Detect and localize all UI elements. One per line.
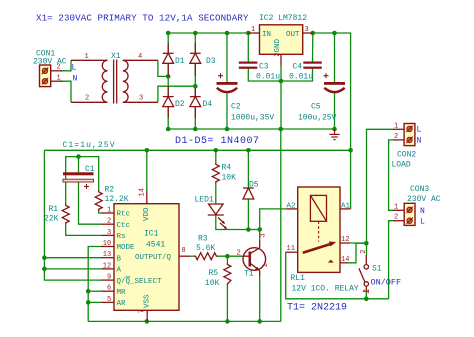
svg-text:7: 7 — [139, 309, 147, 313]
wire to pin 5 AR — [88, 301, 101, 303]
relay pin A2 stub — [286, 208, 298, 210]
wire ground rail — [168, 128, 334, 130]
svg-text:X1= 230VAC PRIMARY TO 12V,1A S: X1= 230VAC PRIMARY TO 12V,1A SECONDARY — [36, 13, 249, 24]
capacitor C4 — [303, 62, 322, 69]
wire C4 top — [312, 33, 314, 62]
junction T1 base node — [225, 254, 230, 259]
junction C1 oscillator node — [76, 154, 81, 159]
wire VDD pin14 to +12V rail — [146, 150, 148, 190]
svg-text:230V AC: 230V AC — [407, 195, 441, 204]
wire top rail D1-D3-C2-C3 to IC2 IN — [168, 32, 248, 34]
svg-text:8: 8 — [182, 247, 186, 255]
junction C2 top rail — [225, 31, 230, 36]
wire D2 bottom to ground rail — [167, 107, 169, 129]
junction D2 ground rail — [166, 127, 171, 132]
junction T1 collector node — [257, 227, 262, 232]
svg-text:L: L — [72, 64, 77, 73]
junction pin13 B — [42, 255, 47, 260]
IC1 pin14 stub — [146, 191, 148, 204]
svg-text:D1: D1 — [175, 57, 185, 66]
wire relay pin11 to bottom rail — [286, 252, 389, 299]
wire VSS bottom rail — [88, 320, 281, 322]
junction +12V rail corner — [348, 148, 353, 153]
svg-text:12: 12 — [103, 262, 111, 270]
svg-text:9: 9 — [107, 274, 111, 282]
regulator IC2 LM7812 — [248, 25, 312, 65]
svg-text:Rs: Rs — [117, 233, 126, 241]
wire CON3 pin2 down to bottom rail — [389, 221, 393, 299]
svg-text:C5: C5 — [311, 103, 321, 112]
wire oscillator node line — [66, 157, 99, 204]
svg-text:AR: AR — [117, 300, 127, 308]
junction pin6 MR — [86, 289, 91, 294]
wire LED1 cathode to node — [216, 216, 260, 230]
svg-text:3: 3 — [260, 233, 268, 237]
svg-text:MODE: MODE — [117, 244, 136, 252]
wire R5 bottom to VSS rail — [226, 286, 228, 322]
IC1 left pin stubs — [101, 213, 114, 302]
junction relay 12 14 S1 — [364, 241, 369, 246]
wire CON2 pin2 to CON3 pin1 — [389, 140, 393, 210]
diode D2 — [163, 86, 174, 118]
wire CON1 pin2 to transformer pin1 — [60, 60, 71, 71]
svg-text:C4: C4 — [293, 63, 303, 72]
svg-text:T1= 2N2219: T1= 2N2219 — [287, 303, 347, 314]
svg-text:3: 3 — [107, 229, 111, 237]
svg-text:VSS: VSS — [144, 294, 152, 308]
svg-text:230V AC: 230V AC — [33, 58, 67, 67]
svg-text:2: 2 — [394, 133, 398, 141]
wire R1 bottom to pin 3 Rs — [66, 225, 101, 236]
svg-text:2: 2 — [85, 95, 89, 103]
junction D5 LED node — [246, 227, 251, 232]
svg-text:A1: A1 — [341, 202, 351, 210]
svg-text:A: A — [117, 267, 122, 275]
junction pin12 A — [42, 267, 47, 272]
svg-text:13: 13 — [103, 251, 111, 259]
wire C1 top to node — [78, 157, 80, 173]
svg-text:4541: 4541 — [146, 241, 165, 250]
svg-text:2: 2 — [274, 53, 282, 57]
svg-text:Q/Q_SELECT: Q/Q_SELECT — [117, 278, 163, 286]
pin name Q_SELECT overline — [126, 276, 131, 278]
resistor R1 — [62, 204, 69, 225]
diode D1 — [163, 43, 174, 76]
IC1 pin7 stub — [146, 310, 148, 321]
svg-text:VDD: VDD — [143, 207, 151, 221]
relay pin 11 stub — [286, 251, 298, 253]
resistor R4 — [212, 163, 219, 184]
relay pin 12 stub — [340, 242, 350, 244]
svg-text:D5: D5 — [249, 181, 259, 190]
IC1 pin8 stub — [179, 255, 190, 257]
capacitor C1 polarized — [63, 172, 94, 189]
svg-text:2: 2 — [107, 218, 111, 226]
wire IC2 GND pin down to ground rail — [280, 65, 282, 129]
svg-text:1: 1 — [394, 203, 398, 211]
wire to pin 6 MR — [88, 290, 101, 292]
IC U1 4541 body — [114, 204, 179, 311]
svg-text:IN: IN — [262, 31, 271, 39]
connector CON2 — [393, 124, 415, 146]
wire +12V horizontal rail — [44, 149, 350, 151]
wire R4 bottom to LED1 — [215, 184, 217, 204]
svg-text:0.01u: 0.01u — [289, 73, 313, 82]
svg-text:1: 1 — [394, 122, 398, 130]
svg-text:D2: D2 — [175, 100, 185, 109]
wire R2 bottom to pin 1 Rtc — [99, 211, 101, 213]
svg-text:C3: C3 — [259, 63, 269, 72]
wire relay pin14 to S1 junction — [348, 243, 366, 263]
svg-text:X1: X1 — [111, 52, 121, 61]
ground symbol — [329, 129, 339, 140]
junction D1 top rail — [166, 31, 171, 36]
relay pin A1 stub — [340, 208, 351, 210]
svg-text:1: 1 — [251, 26, 255, 34]
junction pin7 VSS rail — [145, 319, 150, 324]
relay dashed actuator line — [318, 221, 320, 241]
junction S1 bottom rail — [364, 297, 369, 302]
svg-text:14: 14 — [138, 188, 146, 196]
svg-text:R2: R2 — [105, 186, 115, 195]
wire D1 column — [167, 33, 169, 53]
svg-text:N: N — [417, 137, 422, 146]
wire node up to relay A2 — [260, 209, 286, 230]
svg-text:1: 1 — [85, 53, 89, 61]
svg-text:B: B — [117, 255, 122, 263]
junction R4 +12V rail — [214, 148, 219, 153]
svg-text:R1: R1 — [49, 205, 59, 214]
relay pin 14 stub — [340, 262, 348, 264]
wire left VDD vertical to pins B A Q_SELECT — [44, 150, 101, 280]
wire MODE MR AR ground vertical — [88, 247, 101, 322]
svg-text:5: 5 — [107, 296, 111, 304]
svg-text:C1=1u,25V: C1=1u,25V — [63, 141, 116, 150]
wire IC2 OUT rail to corner — [313, 33, 351, 150]
svg-text:C1: C1 — [85, 165, 95, 174]
svg-text:L: L — [420, 218, 425, 227]
svg-text:D4: D4 — [203, 100, 213, 109]
wire VSS rail up to ground rail — [280, 129, 282, 321]
wire D3 column — [194, 33, 196, 53]
svg-text:12: 12 — [341, 236, 349, 244]
svg-text:1000u,35V: 1000u,35V — [231, 114, 274, 123]
wire C3 top — [247, 33, 249, 62]
svg-text:N: N — [420, 207, 425, 216]
junction C5 ground rail — [332, 127, 337, 132]
svg-text:OUT: OUT — [286, 31, 300, 39]
transformer X1 — [71, 60, 158, 104]
svg-text:11: 11 — [287, 245, 295, 253]
svg-text:CON2: CON2 — [397, 151, 416, 160]
svg-text:R3: R3 — [198, 235, 208, 244]
wire R5 top — [226, 256, 228, 263]
svg-text:1: 1 — [107, 207, 111, 215]
wire D5 anode to node — [247, 199, 249, 229]
switch S1 — [359, 255, 369, 292]
svg-text:2: 2 — [57, 64, 61, 72]
svg-text:GND: GND — [274, 38, 282, 52]
svg-text:12.2K: 12.2K — [105, 195, 129, 204]
capacitor C5 — [324, 73, 346, 92]
junction C4 IC2 OUT — [311, 31, 316, 36]
svg-text:R5: R5 — [209, 269, 219, 278]
svg-text:12V 1CO. RELAY: 12V 1CO. RELAY — [292, 285, 359, 294]
svg-text:10K: 10K — [222, 174, 237, 183]
svg-text:4: 4 — [138, 53, 142, 61]
junction D1 D2 node — [166, 74, 171, 79]
svg-text:A2: A2 — [287, 202, 296, 210]
junction R5 VSS rail — [225, 319, 230, 324]
svg-text:T1: T1 — [244, 270, 254, 279]
wire CON1 pin1 to transformer pin2 — [60, 81, 71, 102]
wire R3 to T1 base node — [218, 255, 244, 257]
wire to pin 12 A — [44, 268, 101, 270]
svg-text:3: 3 — [305, 26, 309, 34]
junction D3 top rail — [193, 31, 198, 36]
wire IC1 pin8 to R3 — [190, 255, 194, 257]
svg-text:2: 2 — [394, 214, 398, 222]
svg-text:RL1: RL1 — [291, 274, 306, 283]
wire relay pin12 to S1 junction — [350, 242, 367, 244]
capacitor C3 — [239, 62, 257, 69]
junction T1 emitter VSS rail — [257, 319, 262, 324]
svg-text:CON3: CON3 — [410, 185, 429, 194]
svg-text:D3: D3 — [206, 57, 216, 66]
svg-text:5.6K: 5.6K — [196, 244, 215, 253]
junction D4 ground rail — [193, 127, 198, 132]
svg-text:IC1: IC1 — [144, 230, 159, 239]
LED LED1 — [208, 204, 227, 229]
junction D3 D4 node — [193, 84, 198, 89]
wire D3 D4 mid column — [194, 64, 196, 97]
svg-text:10K: 10K — [205, 279, 220, 288]
svg-text:MR: MR — [117, 289, 127, 297]
diode D4 — [190, 88, 201, 118]
svg-text:Rtc: Rtc — [117, 211, 131, 219]
svg-text:1: 1 — [262, 263, 270, 267]
wire to pin 13 B — [44, 257, 101, 259]
svg-text:14: 14 — [341, 256, 349, 264]
svg-text:ON/OFF: ON/OFF — [371, 278, 402, 288]
svg-text:R4: R4 — [222, 164, 232, 173]
wire D5 top to +12V rail — [247, 150, 249, 187]
wire +12V vertical to relay A1 — [350, 150, 352, 209]
svg-text:6: 6 — [107, 285, 111, 293]
svg-text:10: 10 — [103, 240, 111, 248]
resistor R5 — [224, 263, 231, 286]
wire CON2 pin1 down to S1 top — [367, 129, 394, 255]
junction pin5 AR — [86, 300, 91, 305]
wire R4 top to +12V rail — [215, 150, 217, 162]
relay coil — [310, 195, 326, 221]
wire D4 bottom to ground rail — [194, 107, 196, 129]
svg-text:IC2 LM7812: IC2 LM7812 — [259, 14, 307, 23]
wire C2 bottom — [226, 94, 228, 130]
junction C2 ground rail — [225, 127, 230, 132]
wire C5 top — [334, 33, 336, 82]
svg-text:OUTPUT/Q: OUTPUT/Q — [135, 254, 172, 262]
svg-text:C2: C2 — [231, 103, 241, 112]
transistor T1 2N2219 — [243, 240, 266, 276]
junction D5 +12V rail — [246, 148, 251, 153]
wire D1 D2 mid column — [167, 64, 169, 97]
svg-text:S1: S1 — [372, 265, 382, 274]
relay NC contact mark — [328, 260, 334, 263]
pin number S1 1 — [363, 289, 369, 293]
svg-text:100u,25V: 100u,25V — [298, 114, 337, 123]
resistor R2 — [95, 190, 102, 211]
svg-text:LOAD: LOAD — [392, 161, 411, 170]
wire C2 top — [226, 33, 228, 82]
svg-text:3: 3 — [139, 95, 143, 103]
junction C3 IC2 IN — [246, 31, 251, 36]
wire C1 bottom to pin 2 Ctc — [79, 182, 101, 224]
svg-text:LED1: LED1 — [195, 196, 214, 205]
wire C5 bottom — [334, 94, 336, 130]
relay contact arm — [303, 242, 336, 253]
wire T1 collector — [259, 230, 261, 241]
svg-text:N: N — [73, 75, 78, 84]
connector CON3 — [393, 203, 415, 225]
svg-text:22K: 22K — [44, 215, 59, 224]
diode D3 — [190, 43, 201, 76]
capacitor C2 — [217, 73, 238, 92]
junction C5 OUT rail — [332, 31, 337, 36]
svg-text:L: L — [417, 126, 422, 135]
relay RL1 body — [298, 187, 340, 272]
resistor R3 — [194, 253, 218, 260]
junction GND pin ground rail — [279, 127, 284, 132]
svg-text:2: 2 — [237, 250, 241, 258]
svg-text:2: 2 — [360, 250, 368, 254]
svg-text:D1-D5= 1N4007: D1-D5= 1N4007 — [175, 136, 260, 147]
wire S1 bottom to rail — [365, 292, 367, 299]
wire transformer pin3 to D3 D4 junction — [158, 86, 195, 102]
connector CON1 — [40, 65, 63, 87]
wire C3 bottom to GND node — [248, 69, 312, 81]
svg-text:1: 1 — [57, 75, 61, 83]
wire transformer pin4 to D1 D2 junction — [158, 60, 168, 76]
wire T1 emitter to VSS rail — [259, 276, 261, 321]
svg-text:Ctc: Ctc — [117, 222, 131, 230]
junction C3 C4 GND node — [279, 79, 284, 84]
diode D5 — [243, 188, 254, 199]
svg-text:0.01u: 0.01u — [256, 73, 280, 82]
junction VDD +12V rail — [145, 148, 150, 153]
